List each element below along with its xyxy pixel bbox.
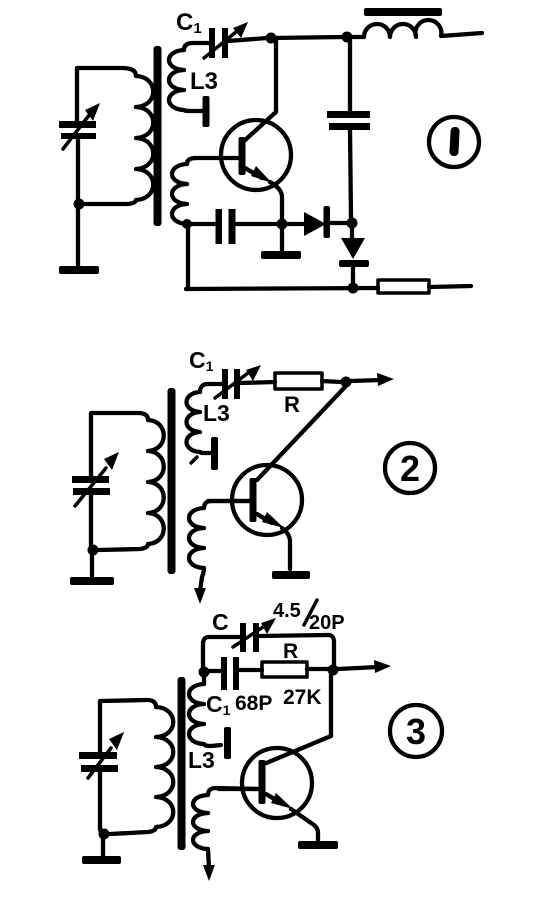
diode D1 bbox=[304, 206, 330, 238]
node A2 junction bbox=[182, 219, 192, 229]
svg-text:L3: L3 bbox=[188, 747, 215, 773]
badge circled 3 bbox=[390, 705, 442, 757]
L3 tap terminal bar bbox=[203, 96, 210, 127]
transformer T3 core bbox=[178, 677, 186, 850]
wire bbox=[228, 38, 267, 41]
svg-text:R: R bbox=[284, 392, 300, 417]
svg-text:4.5: 4.5 bbox=[273, 600, 301, 622]
resistor R 27K bbox=[262, 662, 307, 677]
wire base bbox=[208, 499, 249, 503]
ground bbox=[59, 266, 99, 274]
wire bottom rail bbox=[186, 288, 378, 289]
inductor L3 winding bbox=[189, 676, 221, 746]
svg-text:2: 2 bbox=[400, 448, 420, 489]
svg-text:C1: C1 bbox=[189, 347, 214, 374]
inductor L3 winding bbox=[187, 384, 223, 453]
node F junction bbox=[347, 218, 358, 229]
node L junction bbox=[328, 665, 339, 676]
wire bbox=[186, 226, 190, 288]
resistor R bbox=[275, 373, 322, 389]
node K junction bbox=[199, 667, 210, 678]
wire base bbox=[194, 156, 238, 160]
capacitor C1 68P bbox=[221, 657, 239, 690]
pencil tick bbox=[191, 457, 197, 463]
svg-text:68P: 68P bbox=[235, 692, 272, 715]
inductor L1 primary winding bbox=[92, 413, 164, 550]
diode D2 bbox=[339, 227, 369, 285]
wire bbox=[286, 222, 303, 226]
wire bbox=[429, 286, 471, 287]
wire bbox=[77, 68, 136, 76]
value label 4.5/20P bbox=[273, 600, 345, 634]
transistor Q2 bbox=[232, 465, 302, 535]
Q1 emitter arrow bbox=[245, 166, 282, 221]
Q1 base bar bbox=[239, 137, 246, 175]
wire bbox=[89, 495, 93, 546]
badge circled 1 bbox=[429, 117, 479, 167]
wire bbox=[271, 37, 344, 38]
variable capacitor VC3 bbox=[79, 732, 124, 778]
inductor L2 secondary winding bbox=[189, 501, 249, 591]
choke L4 core bar bbox=[364, 8, 442, 16]
transistor Q3 bbox=[242, 748, 312, 818]
ground bbox=[70, 577, 114, 585]
wire bbox=[89, 413, 93, 477]
wire collector riser bbox=[244, 40, 276, 141]
Q3 emitter arrow bbox=[266, 793, 318, 840]
capacitor C3 bbox=[216, 209, 236, 244]
output arrow bbox=[351, 373, 394, 386]
wire bbox=[98, 701, 102, 753]
wire bbox=[190, 222, 216, 226]
Q2 emitter arrow bbox=[257, 512, 290, 569]
svg-text:3: 3 bbox=[406, 711, 426, 752]
antenna arrow down bbox=[203, 865, 215, 881]
wire collector diagonal bbox=[257, 387, 345, 480]
ground bbox=[272, 571, 310, 579]
output arrow bbox=[338, 660, 391, 673]
L3 tap terminal bar bbox=[211, 437, 218, 470]
svg-text:20P: 20P bbox=[309, 612, 345, 634]
wire bbox=[203, 637, 240, 667]
inductor L2 secondary winding bbox=[172, 158, 196, 224]
wire bbox=[90, 554, 94, 577]
wire bbox=[348, 39, 352, 111]
svg-text:27K: 27K bbox=[283, 686, 322, 709]
variable capacitor VC2 bbox=[72, 452, 119, 506]
node B junction bbox=[266, 33, 277, 44]
inductor L1 primary winding bbox=[82, 76, 153, 204]
wire collector diagonal bbox=[264, 736, 331, 764]
Q3 base bar bbox=[259, 760, 266, 804]
wire bbox=[330, 221, 347, 225]
capacitor C2 bbox=[327, 111, 370, 130]
transistor Q1 bbox=[221, 120, 291, 190]
trimmer capacitor C bbox=[233, 618, 276, 652]
badge circled 2 bbox=[385, 443, 435, 493]
resistor R1 bbox=[378, 280, 429, 293]
svg-text:L3: L3 bbox=[203, 400, 230, 426]
svg-text:R: R bbox=[283, 640, 298, 663]
ground bbox=[82, 856, 121, 864]
Q2 base bar bbox=[250, 478, 257, 522]
wire bbox=[98, 772, 102, 830]
wire base bbox=[219, 787, 258, 791]
wire bbox=[76, 208, 80, 265]
node E junction bbox=[277, 219, 288, 230]
inductor L2 secondary winding bbox=[193, 788, 258, 869]
node B2 junction bbox=[342, 32, 353, 43]
wire bbox=[240, 382, 275, 383]
node M junction bbox=[99, 829, 110, 840]
wire bbox=[236, 222, 278, 226]
wire bbox=[239, 668, 262, 672]
svg-text:C1: C1 bbox=[176, 9, 202, 37]
inductor L3 secondary winding bbox=[169, 43, 209, 111]
wire bbox=[322, 381, 341, 382]
antenna arrow down bbox=[194, 588, 206, 604]
inductor L1 primary winding bbox=[101, 700, 173, 834]
trimmer capacitor C1 bbox=[215, 365, 261, 399]
svg-text:C1: C1 bbox=[206, 691, 231, 718]
transformer T2 core bbox=[168, 388, 176, 574]
node J junction bbox=[88, 545, 99, 556]
wire bbox=[206, 669, 221, 673]
wire bbox=[259, 635, 334, 665]
transformer T1 core bbox=[154, 46, 162, 226]
trimmer capacitor C1 bbox=[204, 22, 248, 58]
node G junction bbox=[348, 283, 359, 294]
wire bbox=[75, 68, 79, 121]
svg-text:L3: L3 bbox=[190, 68, 218, 95]
node H junction bbox=[341, 377, 352, 388]
choke L4 winding bbox=[348, 20, 482, 37]
wire bbox=[350, 130, 351, 218]
L3 tap terminal bar bbox=[224, 727, 231, 759]
wire bbox=[76, 139, 80, 200]
variable capacitor VC1 bbox=[59, 103, 100, 149]
wire bbox=[329, 675, 333, 736]
wire bbox=[101, 839, 105, 856]
svg-text:C: C bbox=[212, 609, 229, 635]
node A junction bbox=[74, 199, 85, 210]
ground bbox=[298, 841, 338, 849]
wire bbox=[307, 667, 330, 671]
ground bbox=[261, 227, 301, 259]
